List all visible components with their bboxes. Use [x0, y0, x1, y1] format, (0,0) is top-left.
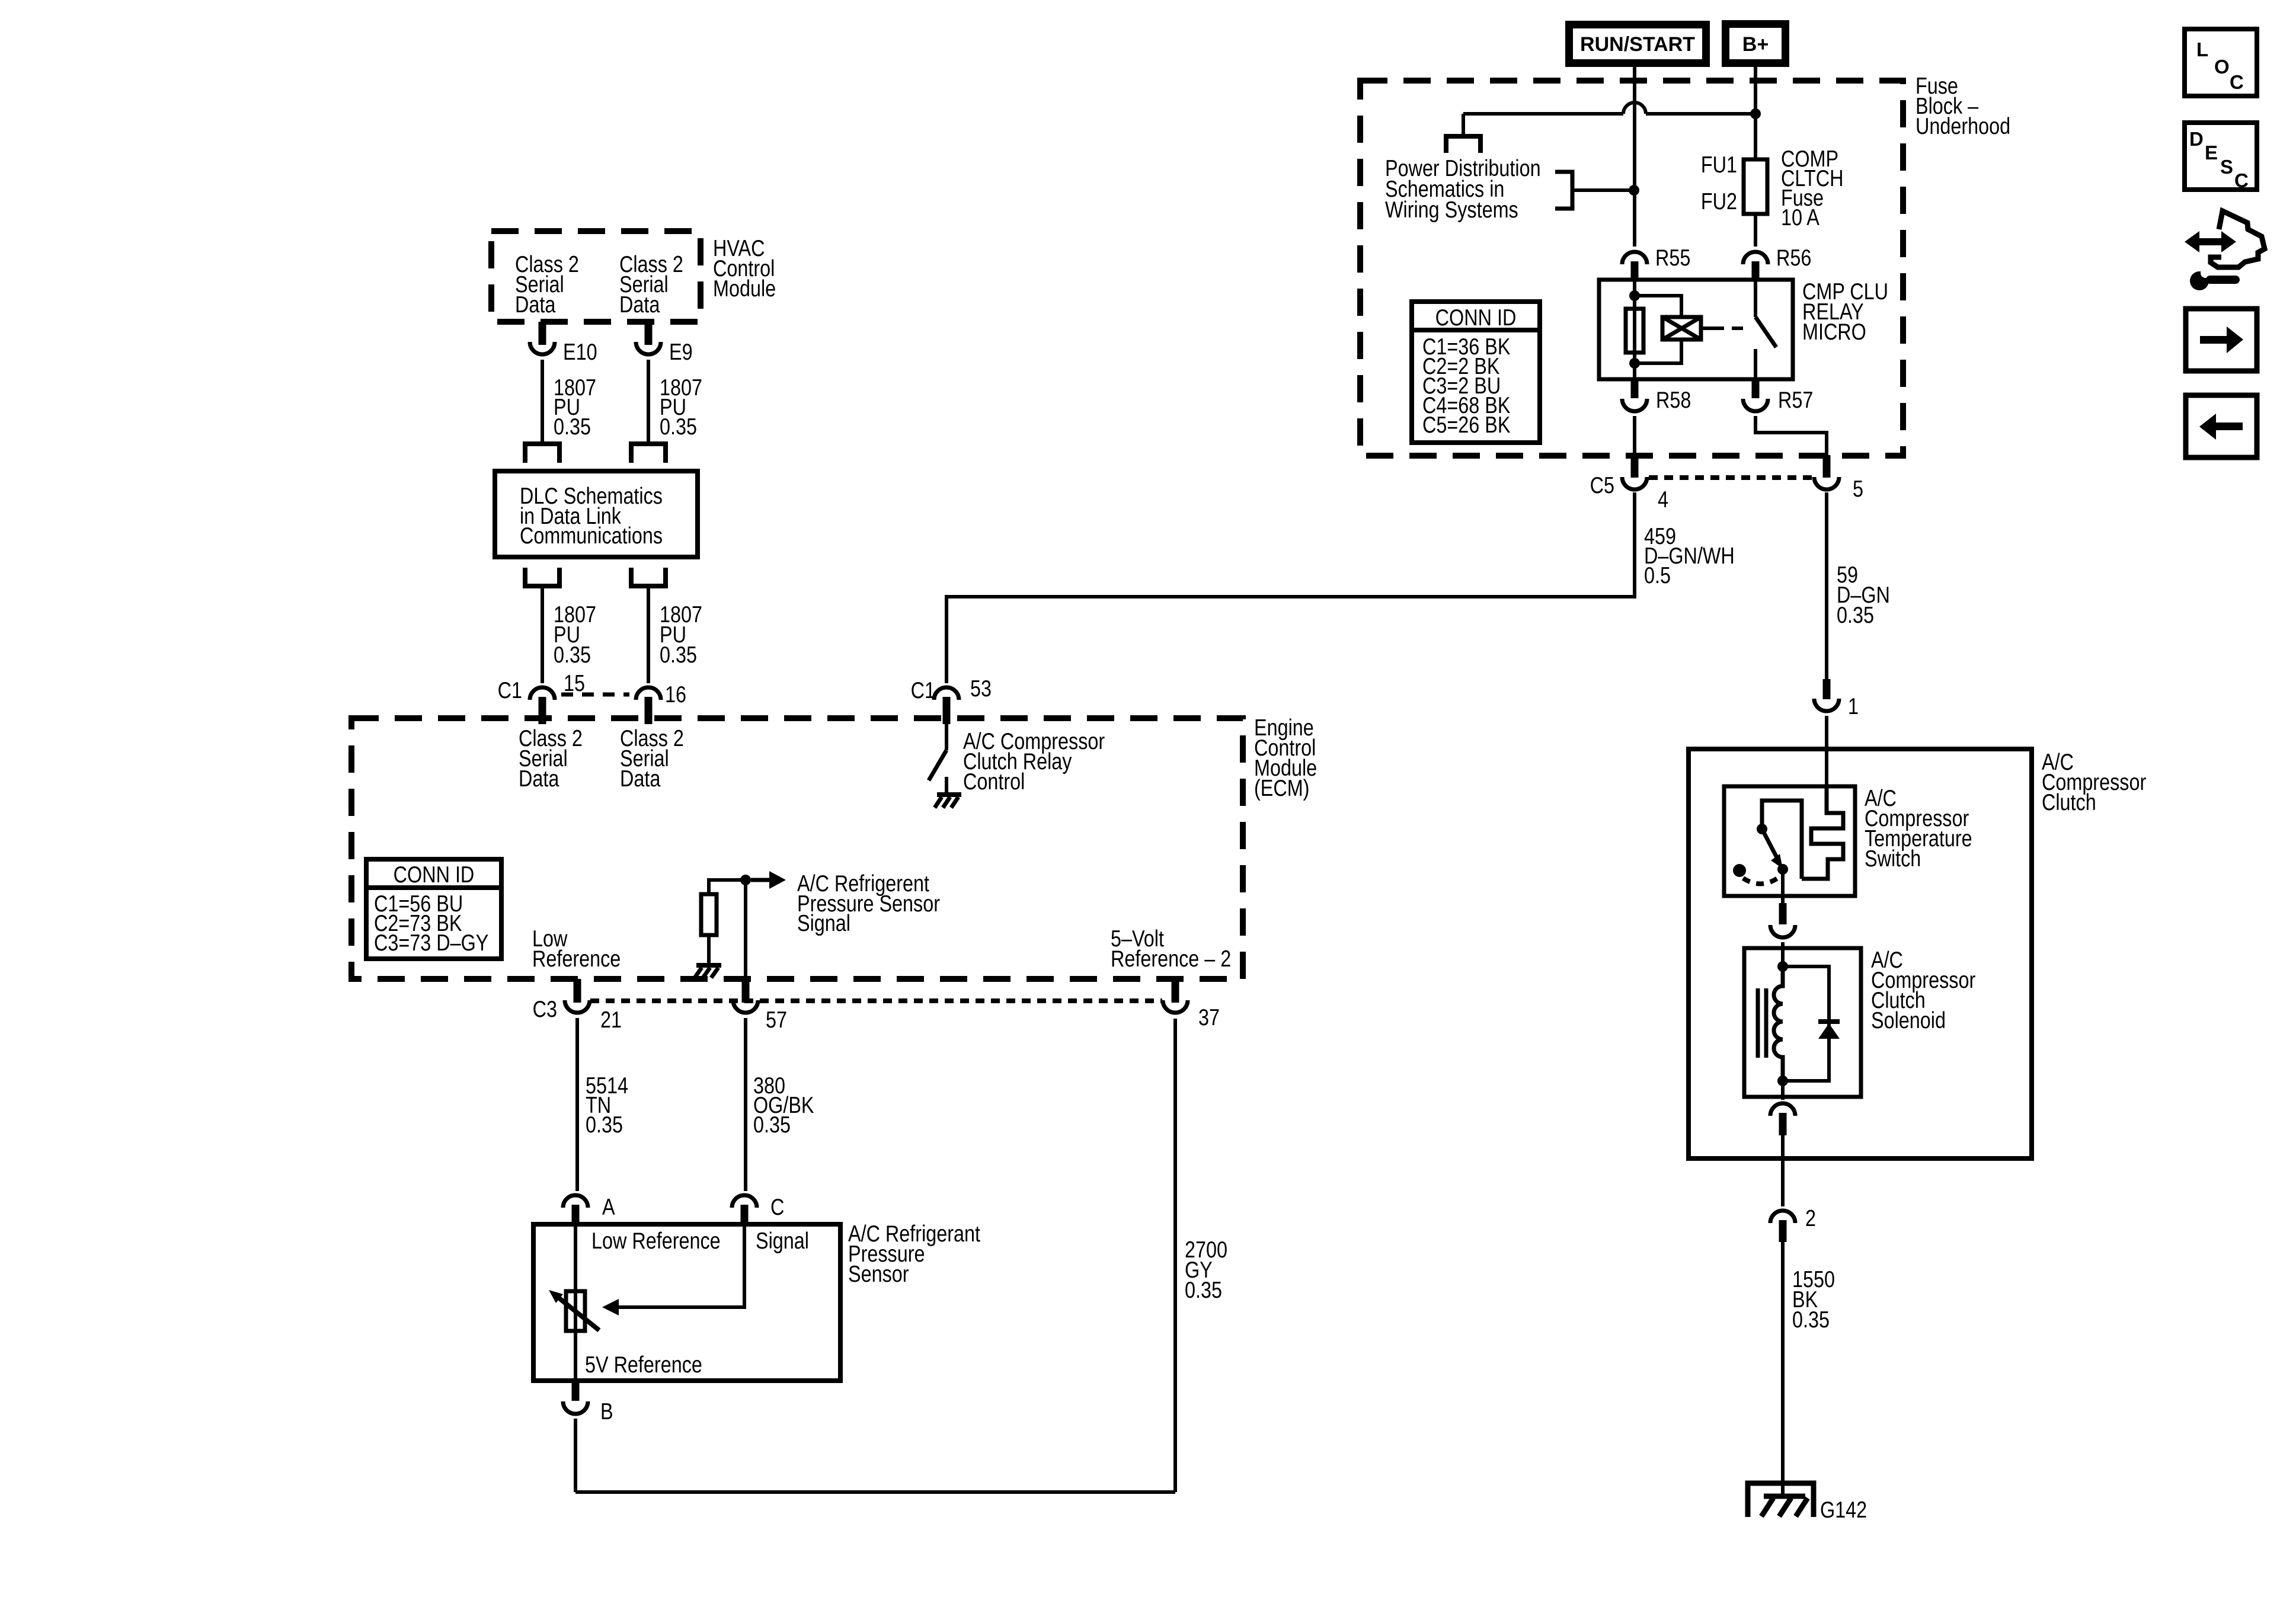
off-page fork (left, above DLC)	[523, 444, 562, 463]
5V Reference label	[585, 1352, 702, 1378]
off-page fork (right, above DLC)	[629, 444, 668, 463]
switch moving contact dot	[1777, 864, 1788, 875]
switch pivot dot	[1757, 824, 1767, 834]
svg-text:C1: C1	[498, 677, 522, 703]
connector C1 pin 16	[636, 687, 661, 724]
svg-text:Communications: Communications	[520, 523, 663, 549]
pin 53 label	[970, 676, 992, 702]
dotted connector row line (ECM bottom)	[590, 998, 1162, 1003]
svg-text:C: C	[2234, 169, 2249, 191]
svg-text:0.5: 0.5	[1644, 562, 1671, 588]
svg-text:L: L	[2196, 39, 2208, 60]
svg-text:Data: Data	[620, 766, 660, 792]
svg-text:O: O	[2214, 56, 2230, 78]
svg-text:53: 53	[970, 676, 992, 702]
solenoid core bars	[1758, 988, 1766, 1058]
wire resistor to ground	[707, 935, 711, 965]
wire E9 to DLC fork	[647, 360, 650, 442]
Low Reference label	[532, 926, 621, 972]
pin A label	[602, 1194, 615, 1220]
connector R57	[1743, 379, 1768, 411]
wire relay left leg	[1633, 280, 1636, 379]
svg-text:0.35: 0.35	[660, 414, 697, 440]
node Class 2 Serial Data (left, ECM)	[519, 725, 583, 792]
HVAC Control Module dashed box	[491, 231, 701, 322]
svg-text:57: 57	[766, 1007, 787, 1033]
pin B label	[600, 1398, 613, 1425]
relay switch	[1755, 280, 1776, 379]
resistor (ECM internal)	[701, 894, 717, 935]
Low Reference / Signal pin labels	[591, 1228, 809, 1254]
wire bracket to RUN/START wire	[1572, 188, 1631, 192]
node solenoid top junction	[1777, 961, 1788, 972]
Engine Control Module dashed box	[351, 718, 1243, 979]
wire pin B to bottom run	[574, 1419, 577, 1492]
wire label 5514 TN 0.35	[586, 1073, 628, 1138]
DLC Schematics label	[520, 483, 663, 549]
node relay bottom junction	[1629, 358, 1640, 369]
switch idle contact dot	[1733, 864, 1746, 877]
Engine Control Module (ECM) label	[1254, 715, 1317, 801]
connector pin C	[732, 1195, 757, 1224]
wire solenoid output	[1781, 1081, 1785, 1100]
wire junction down to pin 57	[744, 880, 747, 979]
dotted connector row line (C5 to 5)	[1649, 475, 1813, 480]
svg-text:Signal: Signal	[756, 1228, 809, 1254]
wire label 1807 PU 0.35 (right lower)	[660, 601, 702, 668]
svg-text:Signal: Signal	[797, 910, 850, 936]
svg-text:C3=73 D–GY: C3=73 D–GY	[374, 930, 488, 956]
signal arrow	[751, 871, 786, 889]
svg-text:MICRO: MICRO	[1802, 319, 1866, 345]
pin 15 label	[564, 670, 585, 696]
svg-text:Wiring Systems: Wiring Systems	[1385, 197, 1518, 223]
R58 label	[1656, 387, 1691, 413]
A/C Compressor Clutch box	[1689, 749, 2032, 1158]
pin 4 label	[1658, 486, 1668, 513]
svg-text:FU1: FU1	[1701, 152, 1737, 178]
connector E9 label	[669, 339, 693, 365]
icon double arrow	[2185, 231, 2236, 252]
wire 1550 BK to ground	[1781, 1242, 1785, 1496]
connector pin A	[563, 1195, 588, 1224]
CONN ID header (ECM)	[394, 862, 475, 888]
R56 label	[1776, 245, 1811, 271]
icon vehicle outline	[2211, 211, 2265, 267]
svg-text:0.35: 0.35	[1837, 602, 1874, 628]
pivot loop (temp switch)	[1762, 801, 1802, 879]
svg-text:Reference: Reference	[532, 946, 621, 972]
pin C label	[770, 1194, 784, 1220]
icon LOC letters	[2196, 39, 2244, 93]
svg-text:G142: G142	[1820, 1497, 1867, 1523]
wire bottom run to pin 37 wire	[575, 1490, 1175, 1494]
svg-text:E10: E10	[563, 339, 597, 365]
wire to pin 2	[1781, 1135, 1785, 1206]
svg-text:0.35: 0.35	[554, 414, 591, 440]
CONN ID header (fuse block)	[1435, 305, 1517, 331]
ground G142 earth bar and hatches	[1761, 1496, 1808, 1516]
node Class 2 Serial Data (right, HVAC)	[619, 251, 683, 318]
connector R55	[1622, 252, 1647, 280]
HVAC Control Module label	[713, 235, 776, 302]
connector C1 pin 15	[530, 687, 555, 724]
icon forward arrow	[2200, 327, 2243, 353]
svg-text:C5: C5	[1590, 472, 1614, 498]
svg-text:5: 5	[1853, 476, 1863, 502]
dashed actuator link	[1713, 327, 1750, 330]
B+ label	[1742, 33, 1769, 56]
A/C Compressor Clutch Solenoid label	[1871, 947, 1975, 1033]
svg-text:0.35: 0.35	[1185, 1277, 1222, 1303]
svg-text:37: 37	[1198, 1004, 1220, 1030]
svg-text:15: 15	[564, 670, 585, 696]
icon DESC letters	[2189, 128, 2249, 191]
svg-text:Clutch: Clutch	[2042, 789, 2096, 815]
connector pin B	[563, 1381, 588, 1414]
off-page fork (left, below DLC)	[523, 568, 562, 586]
svg-text:S: S	[2220, 156, 2233, 178]
wire B+ down to fuse	[1754, 67, 1757, 159]
svg-text:0.35: 0.35	[554, 642, 591, 668]
pin 16 label	[665, 681, 686, 708]
wire pin A through potentiometer	[574, 1224, 577, 1381]
svg-text:0.35: 0.35	[660, 642, 697, 668]
svg-text:CONN ID: CONN ID	[394, 862, 475, 888]
connector R56	[1743, 252, 1768, 280]
inline connector (solenoid exit)	[1770, 1103, 1795, 1135]
wire R57 jog to pin 5	[1755, 416, 1827, 455]
node A/C refrigerant pressure sensor signal junction	[740, 875, 751, 885]
A/C Refrigerent Pressure Sensor Signal label	[797, 870, 940, 936]
dashed link between pins 15 and 16	[561, 693, 629, 697]
wire label 59 D-GN 0.35	[1837, 562, 1890, 628]
svg-text:C5=26 BK: C5=26 BK	[1422, 412, 1511, 438]
svg-text:Sensor: Sensor	[848, 1261, 909, 1287]
svg-text:R55: R55	[1655, 245, 1690, 271]
switch blade with arrow	[1762, 829, 1783, 869]
svg-text:E9: E9	[669, 339, 693, 365]
Power Distribution Schematics label	[1385, 155, 1541, 223]
A/C Compressor Clutch Solenoid box	[1744, 948, 1861, 1097]
wire label 380 OG/BK 0.35	[753, 1073, 814, 1138]
svg-text:CONN ID: CONN ID	[1435, 305, 1517, 331]
wire pin 57 to sensor pin C	[744, 1018, 747, 1191]
Fuse Block Underhood dashed box	[1360, 81, 1903, 456]
A/C Refrigerant Pressure Sensor label	[848, 1221, 980, 1287]
svg-text:FU2: FU2	[1701, 188, 1737, 215]
ground (ECM resistor)	[695, 965, 721, 978]
icon back arrow box	[2186, 395, 2257, 457]
connector C3 label	[533, 996, 557, 1022]
wire DLC to C1 15	[541, 588, 544, 683]
icon back arrow	[2199, 414, 2243, 440]
diode	[1818, 1022, 1840, 1039]
svg-text:Data: Data	[619, 292, 660, 318]
wire pin 21 to sensor pin A	[575, 1018, 579, 1191]
switch A/C compressor clutch relay control	[929, 724, 946, 793]
svg-text:4: 4	[1658, 486, 1668, 513]
wire 459 D-GN/WH to ECM pin 53	[946, 492, 1635, 683]
svg-text:0.35: 0.35	[1792, 1307, 1830, 1333]
svg-text:C: C	[770, 1194, 784, 1220]
FU1 FU2 labels	[1701, 152, 1737, 215]
svg-text:Module: Module	[713, 276, 776, 302]
connector pin 5	[1814, 455, 1839, 489]
wire 59 D-GN to pin 1	[1825, 492, 1828, 679]
resistor (relay internal)	[1626, 309, 1643, 353]
wire signal to wiper	[618, 1224, 744, 1307]
CONN ID table (ECM)	[366, 859, 501, 959]
potentiometer wiper diagonal arrow	[549, 1290, 599, 1330]
pin 5 label	[1853, 476, 1863, 502]
svg-text:RUN/START: RUN/START	[1580, 33, 1695, 56]
connector C1 pin 53	[934, 687, 959, 724]
connector C5 pin 4	[1622, 455, 1647, 489]
wire DLC to C1 16	[647, 588, 650, 683]
5-Volt Reference - 2 label	[1111, 926, 1231, 972]
svg-text:Data: Data	[519, 766, 559, 792]
pin 37 label	[1198, 1004, 1220, 1030]
connector pin 2	[1770, 1211, 1795, 1242]
wire pin 37 down	[1173, 1019, 1177, 1492]
wire fuse to R56	[1754, 214, 1757, 247]
CONN ID rows (ECM)	[374, 891, 488, 956]
node solenoid bottom junction	[1777, 1076, 1788, 1086]
wire horizontal feed with hop	[1463, 103, 1755, 114]
wire label 1807 PU 0.35 (left upper)	[554, 375, 596, 440]
off-page fork (right, below DLC)	[629, 568, 668, 586]
DLC Schematics box	[495, 471, 698, 557]
node relay top junction	[1629, 290, 1640, 301]
diode branch wire	[1783, 966, 1829, 1081]
wire into solenoid box	[1781, 942, 1785, 966]
wire coil branch	[1635, 296, 1681, 363]
pin 21 label	[600, 1007, 622, 1033]
connector E10	[530, 322, 555, 354]
connector C3 pin 21	[565, 979, 590, 1013]
svg-text:2: 2	[1805, 1205, 1816, 1231]
wire label 2700 GY 0.35	[1185, 1237, 1227, 1303]
wire E10 to DLC fork	[541, 360, 544, 442]
svg-text:0.35: 0.35	[753, 1112, 791, 1138]
node junction on B+ wire	[1750, 108, 1761, 119]
svg-text:C1: C1	[911, 677, 935, 703]
fuse COMP CLTCH FU1/FU2	[1744, 159, 1767, 214]
connector R58	[1622, 379, 1647, 411]
svg-text:Underhood: Underhood	[1916, 113, 2010, 139]
svg-text:5V Reference: 5V Reference	[585, 1352, 702, 1378]
wire label 1807 PU 0.35 (left lower)	[554, 601, 596, 668]
svg-text:R58: R58	[1656, 387, 1691, 413]
icon wrench	[2190, 268, 2240, 290]
solenoid coil	[1774, 966, 1783, 1081]
svg-text:(ECM): (ECM)	[1254, 775, 1309, 801]
connector C5 label	[1590, 472, 1614, 498]
RUN/START feed box	[1569, 25, 1706, 63]
svg-text:C: C	[2230, 71, 2244, 93]
relay CMP CLU RELAY MICRO box	[1599, 280, 1793, 379]
wire label 459 D-GN/WH 0.5	[1644, 523, 1735, 588]
connector pin 1	[1814, 679, 1839, 711]
relay coil box with X	[1662, 317, 1701, 340]
svg-text:Switch: Switch	[1865, 846, 1921, 872]
node junction on RUN/START wire	[1629, 185, 1639, 196]
node Class 2 Serial Data (left, HVAC)	[515, 251, 579, 318]
A/C Compressor Temperature Switch label	[1865, 785, 1972, 872]
connector pin 57	[733, 979, 758, 1013]
wire RUN/START down to relay	[1633, 67, 1636, 247]
connector pin 37	[1163, 979, 1188, 1013]
connector E10 label	[563, 339, 597, 365]
off-page fork (power distribution)	[1444, 136, 1483, 153]
svg-text:E: E	[2205, 142, 2218, 164]
svg-text:Control: Control	[963, 769, 1025, 795]
svg-text:Reference – 2: Reference – 2	[1111, 946, 1231, 972]
svg-text:1: 1	[1848, 693, 1859, 719]
svg-text:C3: C3	[533, 996, 557, 1022]
svg-text:A: A	[602, 1194, 615, 1220]
icon forward arrow box	[2186, 309, 2257, 371]
B+ feed box	[1726, 24, 1786, 63]
A/C Refrigerant Pressure Sensor box	[533, 1224, 840, 1381]
svg-text:D: D	[2189, 128, 2204, 150]
pin 1 label	[1848, 693, 1859, 719]
svg-text:10 A: 10 A	[1781, 204, 1819, 231]
svg-text:B: B	[600, 1398, 613, 1425]
A/C Compressor Temperature Switch box	[1724, 786, 1855, 896]
COMP CLTCH Fuse 10 A label	[1781, 146, 1843, 231]
pin 2 label	[1805, 1205, 1816, 1231]
svg-text:Solenoid: Solenoid	[1871, 1007, 1946, 1033]
Fuse Block Underhood label	[1916, 73, 2010, 139]
R57 label	[1778, 387, 1813, 413]
connector C1 label	[498, 677, 522, 703]
dashed travel arc	[1743, 877, 1779, 884]
CONN ID rows (fuse block)	[1422, 334, 1511, 438]
svg-text:21: 21	[600, 1007, 622, 1033]
A/C Compressor Clutch label	[2042, 749, 2146, 815]
icon DESC box	[2185, 123, 2257, 190]
CONN ID table (fuse block)	[1412, 302, 1540, 443]
R55 label	[1655, 245, 1690, 271]
connector C1 label (pin 53)	[911, 677, 935, 703]
icon LOC box	[2185, 29, 2257, 96]
wire junction to pull-up resistor	[709, 880, 746, 894]
wire feed to power distribution fork	[1462, 114, 1465, 134]
ground (ECM relay control)	[935, 795, 961, 808]
wire pin 1 into compressor box	[1825, 716, 1828, 788]
svg-text:Low Reference: Low Reference	[591, 1228, 721, 1254]
RUN/START label	[1580, 33, 1695, 56]
wire coil to dashed actuator link	[1701, 327, 1713, 330]
pin 57 label	[766, 1007, 787, 1033]
svg-text:B+: B+	[1742, 33, 1769, 56]
svg-text:16: 16	[665, 681, 686, 708]
svg-text:Data: Data	[515, 292, 555, 318]
heater meander element (temp switch)	[1802, 788, 1843, 879]
wire label 1550 BK 0.35	[1792, 1266, 1835, 1333]
svg-text:R56: R56	[1776, 245, 1811, 271]
CMP CLU RELAY MICRO label	[1802, 279, 1888, 345]
wire temp switch output	[1781, 869, 1785, 903]
svg-text:R57: R57	[1778, 387, 1813, 413]
potentiometer (variable resistor)	[566, 1291, 585, 1331]
G142 label	[1820, 1497, 1867, 1523]
connector E9	[636, 322, 661, 354]
inline connector (temp switch to solenoid)	[1770, 903, 1795, 937]
wiper arrowhead	[602, 1299, 619, 1315]
wire label 1807 PU 0.35 (right upper)	[660, 375, 702, 440]
bracket (power distribution reference)	[1555, 172, 1572, 209]
A/C Compressor Clutch Relay Control label	[963, 728, 1105, 795]
wire R58 to C5	[1633, 416, 1636, 455]
node Class 2 Serial Data (right, ECM)	[620, 725, 684, 792]
svg-text:0.35: 0.35	[586, 1112, 623, 1138]
ground G142 bracket	[1748, 1483, 1814, 1517]
